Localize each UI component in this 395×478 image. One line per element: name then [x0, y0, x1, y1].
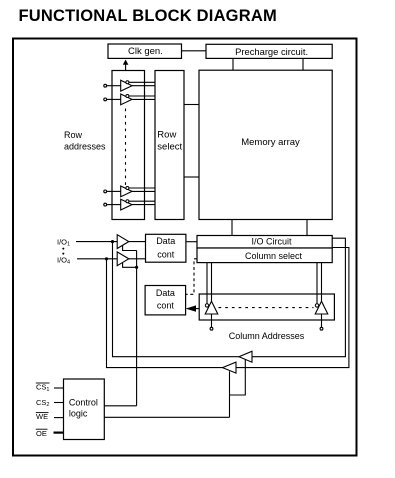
node junction enable [135, 266, 138, 269]
svg-text:cont: cont [157, 250, 175, 260]
buffer row address 3 [104, 186, 155, 197]
buffer row address 2 [104, 94, 155, 105]
ellipsis dots between I/O labels [62, 248, 64, 250]
svg-text:Memory array: Memory array [241, 137, 300, 148]
svg-text:select: select [157, 142, 182, 153]
block I/O Circuit [197, 236, 332, 249]
block Precharge circuit [206, 44, 332, 58]
wire dashed ellipsis column buffers [219, 307, 314, 309]
wire control output 2 [104, 416, 229, 418]
block Clk gen. U1 [108, 44, 182, 58]
svg-text:I/O Circuit: I/O Circuit [251, 237, 292, 247]
buffer column address 2 [315, 263, 328, 331]
svg-text:Row: Row [157, 130, 176, 141]
svg-text:Clk gen.: Clk gen. [128, 46, 163, 57]
block Row select [155, 71, 184, 220]
wire arrow into Data cont 2 [186, 305, 200, 311]
wire I/O1 input [76, 241, 117, 243]
svg-text:Column Addresses: Column Addresses [229, 331, 305, 341]
wire I/O Circuit to output buffer T1 [252, 238, 345, 357]
buffer output T2 [107, 259, 237, 373]
wire Column select to output buffer T2 [236, 248, 349, 368]
wire dashed ellipsis row buffers [125, 109, 127, 186]
buffer output T1 [113, 242, 253, 363]
wire Clk gen. to Precharge circuit [182, 50, 207, 52]
wire Precharge to Memory array stub 2 [302, 58, 304, 70]
svg-text:Row: Row [64, 130, 83, 140]
wire Precharge to Memory array stub 1 [232, 58, 234, 70]
block Memory array [199, 70, 332, 219]
block Data cont 1 [146, 234, 186, 262]
label OE input [36, 429, 64, 438]
block Data cont 2 [145, 286, 186, 315]
block Control logic [64, 379, 105, 440]
svg-text:Control: Control [69, 398, 98, 408]
wire enable buffer B [123, 263, 137, 267]
wire Data cont 1 to I/O Circuit [186, 241, 197, 243]
buffer column address 1 [205, 263, 218, 331]
border frame [13, 39, 357, 456]
wire I/O4 input [77, 258, 117, 260]
wire dashed Column select to Data cont 2 [186, 259, 197, 295]
wire control output 1 [104, 405, 136, 407]
buffer row address 4 [104, 199, 155, 210]
label CS1 input [36, 383, 64, 393]
label CS2 input [36, 398, 64, 408]
svg-text:Data: Data [156, 288, 175, 298]
svg-text:Column select: Column select [245, 251, 303, 261]
wire row buffer box to Clk gen with up arrow [123, 60, 129, 71]
svg-text:addresses: addresses [64, 142, 106, 152]
block Column select [197, 248, 332, 263]
wire Memory array to I/O Circuit stub 2 [306, 220, 308, 236]
wire enable output buffers from control [230, 360, 246, 395]
svg-text:FUNCTIONAL BLOCK DIAGRAM: FUNCTIONAL BLOCK DIAGRAM [19, 7, 277, 25]
buffer I/O input B [117, 252, 145, 266]
buffer row address 1 [104, 80, 155, 91]
wire enable buffer A [123, 246, 137, 251]
label Row addresses [64, 130, 106, 152]
block column address buffer box [199, 294, 334, 320]
svg-text:Data: Data [156, 236, 175, 246]
node junction I/O1 [111, 240, 114, 243]
svg-text:logic: logic [69, 409, 88, 419]
node junction I/O4 [105, 257, 108, 260]
wire Row select to Memory array 1 [184, 104, 199, 106]
wire control enable vertical [136, 251, 138, 406]
svg-text:cont: cont [157, 301, 175, 311]
wire Memory array to I/O Circuit stub 1 [231, 220, 233, 236]
svg-text:WE: WE [36, 412, 48, 421]
svg-text:OE: OE [36, 429, 47, 438]
label WE input [36, 412, 64, 421]
block row address buffer box [112, 71, 145, 220]
buffer I/O input A [117, 235, 145, 249]
wire Row select to Memory array 2 [184, 176, 199, 178]
svg-text:Precharge circuit.: Precharge circuit. [235, 46, 308, 57]
